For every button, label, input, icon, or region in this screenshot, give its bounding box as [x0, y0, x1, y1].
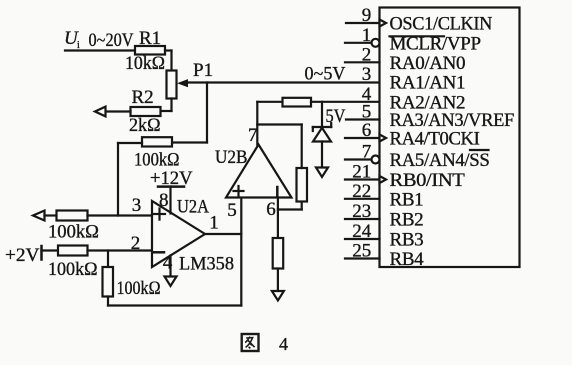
svg-text:RA0/AN0: RA0/AN0	[390, 53, 466, 74]
svg-text:25: 25	[352, 241, 371, 262]
svg-text:0~5V: 0~5V	[305, 64, 346, 85]
svg-text:i: i	[77, 40, 80, 51]
svg-text:8: 8	[159, 190, 169, 211]
svg-text:MCLR/VPP: MCLR/VPP	[390, 33, 481, 54]
svg-text:P1: P1	[193, 60, 213, 81]
svg-text:RB2: RB2	[390, 210, 424, 231]
svg-text:2: 2	[362, 44, 372, 65]
svg-text:4: 4	[279, 334, 288, 354]
svg-text:RA5/AN4/SS: RA5/AN4/SS	[390, 150, 490, 171]
svg-text:0~20V: 0~20V	[89, 30, 134, 51]
svg-text:RA4/T0CKI: RA4/T0CKI	[390, 129, 480, 150]
svg-text:9: 9	[362, 5, 372, 26]
svg-text:RB4: RB4	[390, 249, 425, 270]
svg-text:OSC1/CLKIN: OSC1/CLKIN	[390, 14, 493, 35]
svg-text:6: 6	[362, 120, 372, 141]
svg-text:100kΩ: 100kΩ	[48, 259, 98, 280]
svg-text:5V: 5V	[326, 106, 346, 127]
svg-text:3: 3	[362, 64, 372, 85]
svg-text:R2: R2	[132, 87, 154, 108]
svg-text:7: 7	[362, 142, 372, 163]
svg-text:1: 1	[209, 213, 219, 234]
svg-text:+2V: +2V	[5, 245, 40, 266]
svg-text:3: 3	[132, 195, 142, 216]
svg-text:RB1: RB1	[390, 189, 424, 210]
svg-text:10kΩ: 10kΩ	[125, 53, 165, 74]
svg-text:5: 5	[227, 200, 237, 221]
svg-text:100kΩ: 100kΩ	[117, 278, 161, 299]
svg-text:100kΩ: 100kΩ	[48, 222, 99, 243]
svg-text:LM358: LM358	[179, 254, 234, 275]
svg-text:U2A: U2A	[177, 197, 209, 218]
svg-text:RA1/AN1: RA1/AN1	[390, 73, 466, 94]
svg-text:7: 7	[248, 125, 258, 146]
svg-text:6: 6	[266, 199, 276, 220]
svg-text:+12V: +12V	[150, 168, 193, 189]
svg-text:RB3: RB3	[390, 230, 424, 251]
svg-text:24: 24	[352, 221, 372, 242]
svg-text:R1: R1	[139, 28, 161, 49]
svg-text:23: 23	[352, 201, 371, 222]
svg-text:RB0/INT: RB0/INT	[390, 170, 466, 191]
svg-text:U2B: U2B	[215, 147, 248, 168]
svg-text:21: 21	[352, 162, 371, 183]
svg-text:4: 4	[163, 253, 173, 274]
svg-text:2: 2	[131, 233, 141, 254]
svg-text:1: 1	[362, 25, 372, 46]
svg-text:22: 22	[352, 181, 371, 202]
svg-text:2kΩ: 2kΩ	[129, 115, 161, 136]
